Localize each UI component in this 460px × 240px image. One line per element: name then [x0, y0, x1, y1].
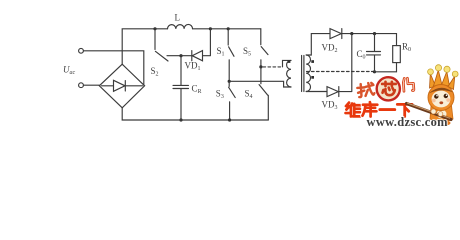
mascot hair fringe [429, 88, 454, 94]
node output bottom [373, 70, 376, 73]
wire inductor to VD1 node [193, 28, 211, 30]
label R0 [402, 42, 411, 54]
mascot crown prongs [430, 70, 455, 90]
wire top terminal to bridge right vertex [84, 51, 144, 85]
wire rail to right leg corner [228, 28, 261, 30]
wm text zhao [357, 83, 375, 98]
wm stick [407, 104, 452, 120]
source Uac terminal top [79, 48, 84, 53]
wire bottom terminal to bridge left vertex [84, 84, 100, 86]
switch S4 [259, 67, 268, 120]
wire bridge top vertex to top rail [122, 29, 155, 64]
label VD1 [185, 61, 201, 73]
node S2 tap [153, 27, 156, 30]
switch S2 [155, 29, 168, 61]
wire bottom rail to R0 [375, 63, 397, 72]
mascot eyes [434, 94, 438, 98]
wire secondary bottom to VD3 [306, 91, 327, 93]
label C0 [357, 49, 366, 61]
secondary polarity dot upper [311, 60, 314, 63]
mascot face [432, 91, 451, 108]
node CR bottom [179, 118, 182, 121]
mascot hand [431, 109, 436, 114]
svg-text:www.dzsc.com: www.dzsc.com [367, 115, 449, 129]
wire bridge bottom to bottom rail [122, 108, 268, 120]
label S3 [216, 89, 224, 101]
mascot blush [432, 99, 436, 103]
switch S1 [228, 29, 234, 82]
label VD3 [322, 100, 338, 112]
wm seal char xin [382, 82, 396, 95]
label CR [192, 84, 202, 96]
label VD2 [322, 43, 338, 55]
secondary polarity dot lower [311, 76, 314, 79]
node S3 bottom [228, 118, 231, 121]
wire S2 to VD1 node [167, 55, 181, 57]
node VD3 join [350, 32, 353, 35]
primary polarity dot [288, 60, 291, 63]
diode VD2 [330, 29, 397, 39]
dashed center tap wire [307, 71, 375, 73]
label Uac [63, 65, 76, 77]
label S1 [217, 46, 225, 58]
wm text weiku yixia [346, 102, 413, 116]
mascot crown balls [428, 69, 434, 75]
switch S5 [261, 29, 268, 67]
svg-text:L: L [175, 13, 181, 23]
wire secondary top to VD2 [306, 34, 330, 55]
inductor L [168, 24, 193, 28]
wm seal circle [377, 77, 400, 100]
switch S3 [229, 81, 236, 120]
mascot feet [431, 120, 437, 124]
label S5 [243, 46, 251, 58]
label S4 [245, 89, 253, 101]
label S2 [151, 66, 159, 78]
node VD1 anode junction [179, 54, 182, 57]
wire rail to inductor [155, 28, 168, 30]
transformer primary winding [287, 60, 291, 87]
transformer core [302, 56, 304, 92]
capacitor CR [173, 56, 189, 120]
bridge rectifier diamond [99, 64, 144, 108]
bridge inner diode [102, 80, 143, 91]
node VD1 return [209, 27, 212, 30]
mascot head [428, 85, 454, 111]
mascot mouth [439, 101, 443, 104]
mascot body [430, 106, 453, 123]
transformer secondary winding [306, 55, 310, 92]
wm text pian [403, 78, 414, 91]
capacitor C0 [367, 34, 381, 72]
node S1 top [227, 27, 230, 30]
diode VD1 [181, 29, 210, 61]
node C0 top [373, 32, 376, 35]
diode VD3 [327, 34, 352, 97]
source Uac terminal bottom [79, 83, 84, 88]
wire rail to S1 [210, 28, 228, 30]
resistor R0 [393, 46, 401, 63]
node left leg midpoint [228, 80, 231, 83]
dashed wire right midpoint to primary top [263, 66, 283, 68]
wire left midpoint to primary bottom [229, 81, 291, 87]
mascot belly [437, 110, 447, 119]
wire to primary top [283, 60, 292, 67]
wire rail to R0 top [396, 34, 398, 46]
label L [175, 13, 181, 23]
node right leg midpoint [259, 65, 262, 68]
